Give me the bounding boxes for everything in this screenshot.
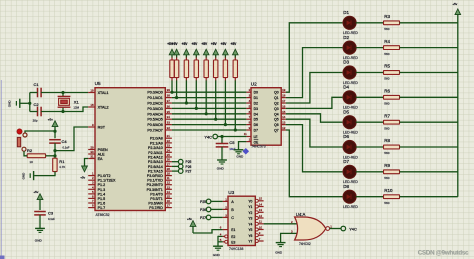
resistor R2	[27, 148, 55, 164]
wire C2 left arm	[30, 111, 38, 113]
svg-text:R4: R4	[384, 39, 390, 44]
svg-text:P1.3: P1.3	[98, 188, 106, 192]
svg-text:P3.5/T1: P3.5/T1	[150, 197, 163, 201]
svg-text:R6: R6	[384, 89, 390, 94]
svg-text:C2: C2	[34, 102, 40, 107]
ground (below R1)	[21, 171, 33, 180]
svg-text:39: 39	[167, 88, 171, 92]
wire D4 to R6	[356, 96, 384, 98]
svg-text:R8: R8	[384, 138, 390, 143]
svg-text:74HC02: 74HC02	[299, 242, 311, 246]
junction X1 top	[61, 91, 64, 94]
svg-text:R7: R7	[384, 113, 390, 118]
button (reset)	[17, 129, 27, 151]
wire R9 to +5v rail	[400, 171, 458, 173]
svg-text:31: 31	[90, 155, 94, 159]
svg-text:P25: P25	[186, 160, 192, 164]
svg-text:20p: 20p	[33, 118, 38, 122]
power +5v (U3 enable)	[187, 217, 196, 233]
svg-text:LED-RED: LED-RED	[343, 56, 358, 60]
svg-text:P0.2/AD2: P0.2/AD2	[147, 102, 162, 106]
wire C4 to R1	[54, 143, 56, 158]
svg-text:U5: U5	[95, 81, 101, 86]
svg-text:+5V: +5V	[221, 42, 228, 46]
power +5v rail	[452, 2, 460, 197]
svg-text:22: 22	[167, 139, 171, 143]
wire D3 to R5	[356, 72, 384, 74]
watermark	[418, 249, 470, 257]
wire D5 to R7	[356, 121, 384, 123]
svg-text:11: 11	[244, 132, 247, 136]
pull-up resistor 2 with +5V	[172, 42, 180, 99]
svg-text:560: 560	[384, 201, 389, 205]
svg-text:Y3: Y3	[248, 217, 252, 221]
junction button tap	[53, 130, 56, 133]
svg-text:Y0: Y0	[248, 199, 252, 203]
wire R4 to +5v rail	[400, 47, 458, 49]
svg-text:ALE: ALE	[98, 153, 106, 157]
svg-text:560: 560	[384, 27, 389, 31]
svg-text:12: 12	[282, 126, 286, 130]
svg-text:P1.4: P1.4	[98, 192, 106, 196]
wire R3 to +5v rail	[400, 22, 458, 24]
wire Q4 to LED D5	[286, 114, 343, 122]
node Y4C (U4 output)	[341, 226, 357, 231]
wire D1 to R3	[356, 22, 384, 24]
svg-text:36: 36	[167, 104, 171, 108]
svg-text:16: 16	[282, 104, 286, 108]
svg-text:D0: D0	[254, 91, 258, 95]
svg-text:560: 560	[384, 126, 389, 130]
svg-text:GND: GND	[275, 250, 283, 254]
svg-text:Y4C: Y4C	[204, 134, 212, 139]
node P27 (U3 side)	[200, 215, 211, 220]
svg-text:P0.5/AD5: P0.5/AD5	[147, 118, 162, 122]
wire Q3 to LED D4	[286, 97, 343, 108]
capacitor C2	[33, 102, 42, 122]
svg-text:10: 10	[167, 172, 171, 176]
wire C5 to ground	[221, 147, 223, 160]
wire Q2 to LED D3	[286, 73, 343, 104]
svg-text:GND: GND	[213, 253, 221, 257]
svg-text:R10: R10	[384, 188, 393, 193]
svg-text:GND: GND	[21, 172, 25, 180]
svg-text:11: 11	[259, 220, 262, 224]
svg-text:D7: D7	[343, 159, 349, 164]
svg-text:17: 17	[167, 204, 171, 208]
svg-text:Y7: Y7	[248, 240, 252, 244]
svg-text:Q5: Q5	[274, 118, 279, 122]
wire R5 to +5v rail	[400, 72, 458, 74]
svg-text:74HC138: 74HC138	[229, 247, 243, 251]
svg-text:+5V: +5V	[201, 42, 208, 46]
capacitor C5	[216, 140, 236, 151]
svg-text:560: 560	[384, 151, 389, 155]
svg-text:Q3: Q3	[274, 107, 279, 111]
wire C3 to ground	[39, 215, 41, 228]
svg-text:C4: C4	[62, 139, 68, 144]
wire node P26 (MCU side)	[172, 165, 179, 167]
svg-text:35: 35	[167, 110, 171, 114]
svg-text:P27: P27	[186, 170, 192, 174]
svg-text:11: 11	[167, 176, 170, 180]
svg-text:+5v: +5v	[187, 217, 192, 221]
NOR gate U4:A 74HC02	[291, 212, 332, 246]
svg-text:P2.6/A14: P2.6/A14	[148, 165, 163, 169]
svg-text:D6: D6	[343, 134, 349, 139]
resistor R7	[384, 113, 400, 130]
wire node P26 to U3	[211, 208, 223, 210]
junction X1 bottom	[61, 110, 64, 113]
svg-text:P2.3/A11: P2.3/A11	[148, 151, 163, 155]
svg-text:GND: GND	[236, 155, 244, 159]
svg-text:19: 19	[282, 88, 286, 92]
wire button to +5v	[25, 131, 55, 133]
svg-text:18: 18	[90, 103, 94, 107]
svg-text:R2: R2	[27, 148, 33, 153]
wire P0.2 bus	[172, 102, 247, 104]
svg-text:Q1: Q1	[274, 96, 279, 100]
svg-text:P25: P25	[200, 200, 206, 204]
svg-text:LED-RED: LED-RED	[343, 180, 358, 184]
svg-text:OE: OE	[254, 140, 259, 144]
marker (no-model diamond)	[243, 148, 250, 155]
svg-text:R9: R9	[384, 163, 390, 168]
svg-text:14: 14	[167, 190, 171, 194]
resistor R9	[384, 163, 400, 180]
ground (below OE)	[234, 150, 244, 159]
svg-text:AT89C52: AT89C52	[96, 213, 110, 217]
wire node P25 to U3	[211, 200, 223, 202]
svg-text:XTAL2: XTAL2	[98, 106, 109, 110]
pull-up resistor 5 with +5V	[201, 42, 209, 115]
svg-text:Y4C: Y4C	[349, 226, 357, 231]
svg-text:LE: LE	[254, 135, 258, 139]
wire Y4C to LE	[218, 136, 247, 138]
junction RST net	[53, 149, 56, 152]
svg-text:Y5: Y5	[248, 228, 252, 232]
wire D8 to R10	[356, 196, 384, 198]
svg-text:27: 27	[167, 162, 171, 166]
wire Q7 to LED D8	[286, 130, 343, 197]
latch U2 74HC573	[244, 81, 286, 148]
svg-text:LED-RED: LED-RED	[343, 131, 358, 135]
svg-text:Q6: Q6	[274, 123, 279, 127]
svg-text:C3: C3	[48, 210, 54, 215]
wire node P27 to U3	[211, 216, 223, 218]
wire node P25 (MCU side)	[172, 161, 179, 163]
microcontroller U5 AT89C52	[88, 81, 172, 217]
LED D3 LED-RED	[342, 60, 358, 85]
ground (below C3)	[35, 228, 45, 242]
wire U4 output	[330, 228, 341, 230]
wire OE to ground	[239, 142, 247, 150]
wire Q1 to LED D2	[286, 48, 343, 98]
resistor R1	[53, 158, 66, 171]
svg-text:Y6: Y6	[248, 234, 252, 238]
wire P0.7 bus	[172, 129, 247, 131]
svg-text:LED-RED: LED-RED	[343, 205, 358, 209]
power +5v (reset)	[48, 117, 58, 138]
svg-text:D6: D6	[254, 123, 258, 127]
wire button to R2	[24, 151, 27, 156]
svg-text:Q4: Q4	[274, 112, 279, 116]
node P26 (MCU side)	[178, 164, 191, 169]
svg-text:P2.2/A10: P2.2/A10	[148, 146, 163, 150]
svg-text:Q2: Q2	[274, 102, 279, 106]
pull-up resistor 8 with +5V	[231, 42, 239, 131]
svg-text:P3.7/RD: P3.7/RD	[149, 206, 163, 210]
svg-text:P1.7: P1.7	[98, 206, 106, 210]
wire Q5 to LED D6	[286, 119, 343, 147]
svg-text:+5v: +5v	[452, 2, 457, 6]
svg-text:X1: X1	[74, 99, 80, 104]
svg-text:CSDN @9whutdsc: CSDN @9whutdsc	[418, 249, 469, 256]
svg-text:Y2: Y2	[248, 211, 252, 215]
ground (left of C1/C2)	[8, 99, 20, 108]
svg-text:18: 18	[282, 94, 286, 98]
wire D6 to R8	[356, 146, 384, 148]
svg-text:EA: EA	[98, 157, 103, 161]
svg-text:23: 23	[167, 144, 171, 148]
svg-text:P27: P27	[200, 216, 206, 220]
wire R6 to +5v rail	[400, 96, 458, 98]
svg-text:Q0: Q0	[274, 91, 279, 95]
svg-text:D2: D2	[254, 102, 258, 106]
svg-text:LED-RED: LED-RED	[343, 106, 358, 110]
svg-text:24: 24	[167, 148, 171, 152]
svg-text:+5v: +5v	[48, 117, 53, 121]
wire P0.0 bus	[172, 91, 247, 93]
svg-text:D1: D1	[343, 10, 349, 15]
svg-text:D4: D4	[254, 112, 258, 116]
junction cap-gnd	[28, 102, 31, 105]
wire U4 input2 to ground	[281, 233, 299, 242]
svg-text:D8: D8	[343, 184, 349, 189]
wire Q6 to LED D7	[286, 125, 343, 172]
wire ground tap	[20, 102, 29, 104]
wire P0.4 bus	[172, 113, 247, 115]
svg-text:+5V: +5V	[211, 42, 218, 46]
svg-text:17: 17	[282, 99, 286, 103]
svg-text:Y4: Y4	[248, 222, 252, 226]
svg-text:P2.1/A9: P2.1/A9	[150, 141, 163, 145]
svg-text:R1: R1	[59, 159, 65, 164]
svg-text:14: 14	[282, 115, 286, 119]
capacitor C1	[34, 82, 42, 97]
wire P0.5 bus	[172, 118, 247, 120]
svg-text:10: 10	[259, 225, 263, 229]
capacitor C4	[49, 139, 70, 149]
svg-text:P3.0/RXD: P3.0/RXD	[147, 174, 163, 178]
svg-text:30: 30	[90, 150, 94, 154]
sheet border (left)	[0, 80, 2, 259]
svg-text:C1: C1	[34, 82, 40, 87]
LED D5 LED-RED	[342, 109, 358, 134]
wire P0.3 bus	[172, 107, 247, 109]
svg-text:D5: D5	[343, 109, 349, 114]
svg-text:P2.5/A13: P2.5/A13	[148, 160, 163, 164]
node P25 (U3 side)	[200, 199, 211, 204]
svg-text:15: 15	[259, 197, 263, 201]
ground (U4 input)	[275, 243, 285, 255]
node P26 (U3 side)	[200, 207, 211, 212]
svg-text:12M: 12M	[73, 106, 79, 110]
wire R8 to +5v rail	[400, 146, 458, 148]
svg-text:E1: E1	[231, 228, 235, 232]
wire E2/E3 to ground	[218, 236, 223, 246]
svg-text:D2: D2	[343, 35, 349, 40]
svg-text:D3: D3	[254, 107, 258, 111]
svg-text:P0.6/AD6: P0.6/AD6	[147, 123, 162, 127]
LED D7 LED-RED	[342, 159, 358, 184]
pull-up resistor 3 with +5V	[182, 42, 190, 104]
svg-text:13: 13	[282, 121, 286, 125]
svg-text:16: 16	[167, 199, 171, 203]
svg-text:P0.7/AD7: P0.7/AD7	[147, 129, 162, 133]
svg-text:E3: E3	[231, 240, 235, 244]
ground (U3 enables)	[213, 246, 223, 257]
LED D8 LED-RED	[342, 184, 358, 209]
svg-text:P3.6/WR: P3.6/WR	[148, 202, 163, 206]
svg-text:P26: P26	[186, 165, 192, 169]
svg-text:RST: RST	[98, 126, 106, 130]
wire R1 to ground	[34, 172, 55, 176]
svg-text:P1.1/T2EX: P1.1/T2EX	[98, 179, 116, 183]
svg-text:Y1: Y1	[248, 205, 252, 209]
svg-text:14: 14	[259, 202, 263, 206]
svg-text:25: 25	[167, 153, 171, 157]
wire D7 to R9	[356, 171, 384, 173]
svg-text:D3: D3	[343, 60, 349, 65]
svg-text:P1.2: P1.2	[98, 183, 106, 187]
svg-text:LED-RED: LED-RED	[343, 155, 358, 159]
svg-text:R3: R3	[384, 14, 390, 19]
svg-text:D1: D1	[254, 96, 258, 100]
svg-text:P2.4/A12: P2.4/A12	[148, 156, 163, 160]
svg-text:P2.7/A15: P2.7/A15	[148, 170, 163, 174]
svg-text:P2.0/A8: P2.0/A8	[150, 137, 163, 141]
svg-text:Q7: Q7	[274, 129, 279, 133]
wire EA to arrow	[85, 159, 89, 167]
svg-text:P3.1/TXD: P3.1/TXD	[147, 179, 163, 183]
svg-text:+5v: +5v	[33, 190, 38, 194]
wire P0.6 bus	[172, 124, 247, 126]
LED D4 LED-RED	[342, 85, 358, 110]
wire cap left vertical	[29, 93, 31, 112]
resistor R4	[384, 39, 400, 56]
wire R7 to +5v rail	[400, 121, 458, 123]
svg-text:U4:A: U4:A	[296, 212, 306, 217]
svg-text:12: 12	[167, 181, 171, 185]
resistor R10	[384, 188, 400, 205]
svg-text:29: 29	[90, 146, 94, 150]
svg-text:GND: GND	[217, 167, 225, 171]
svg-text:P0.1/AD1: P0.1/AD1	[147, 96, 162, 100]
svg-text:37: 37	[167, 99, 171, 103]
svg-text:4.7K: 4.7K	[59, 165, 65, 169]
svg-text:+5V: +5V	[231, 42, 238, 46]
svg-text:D4: D4	[343, 85, 349, 90]
wire C5 top	[221, 137, 223, 144]
pull-up resistor 4 with +5V	[192, 42, 200, 110]
LED D2 LED-RED	[342, 35, 358, 60]
svg-text:74HC573: 74HC573	[251, 145, 265, 149]
resistor R3	[384, 14, 400, 31]
svg-text:XTAL1: XTAL1	[98, 91, 109, 95]
svg-text:+5V: +5V	[172, 42, 179, 46]
svg-text:33: 33	[167, 121, 171, 125]
svg-text:15: 15	[282, 110, 286, 114]
svg-text:C5: C5	[229, 140, 235, 145]
svg-text:GND: GND	[8, 100, 12, 108]
svg-text:C: C	[231, 216, 234, 220]
resistor R8	[384, 138, 400, 155]
svg-text:R5: R5	[384, 64, 390, 69]
svg-text:P3.4/T0: P3.4/T0	[150, 192, 163, 196]
node P27 (MCU side)	[178, 169, 191, 174]
svg-text:P0.0/AD0: P0.0/AD0	[147, 91, 162, 95]
svg-text:U2: U2	[251, 81, 257, 86]
svg-text:U3: U3	[228, 190, 234, 195]
svg-text:28: 28	[167, 167, 171, 171]
svg-text:P0.4/AD4: P0.4/AD4	[147, 112, 162, 116]
svg-text:38: 38	[167, 94, 171, 98]
svg-text:+5V: +5V	[182, 42, 189, 46]
svg-text:12: 12	[259, 214, 263, 218]
pull-up resistor 1 with +5V	[167, 42, 175, 94]
svg-text:13: 13	[259, 208, 263, 212]
wire Y4 to U4 input	[264, 223, 299, 225]
node P25 (MCU side)	[178, 159, 191, 164]
svg-text:560: 560	[384, 77, 389, 81]
svg-text:P1.6: P1.6	[98, 202, 106, 206]
power arrow (EA)	[80, 166, 87, 180]
wire node P27 (MCU side)	[172, 170, 179, 172]
wire Q0 to LED D1	[286, 23, 343, 92]
junction C5 tap	[220, 135, 223, 138]
pull-up resistor 7 with +5V	[221, 42, 229, 126]
svg-text:560: 560	[384, 52, 389, 56]
wire R10 to +5v rail	[400, 196, 458, 198]
svg-text:P1.5: P1.5	[98, 197, 106, 201]
svg-text:21: 21	[167, 134, 171, 138]
svg-text:PSEN: PSEN	[98, 148, 108, 152]
svg-text:P26: P26	[200, 208, 206, 212]
LED D6 LED-RED	[342, 134, 358, 159]
capacitor C3	[34, 210, 55, 220]
svg-text:LED-RED: LED-RED	[343, 31, 358, 35]
svg-text:LED-RED: LED-RED	[343, 81, 358, 85]
svg-text:P3.2/INT0: P3.2/INT0	[147, 183, 163, 187]
svg-text:19: 19	[90, 89, 94, 93]
crystal X1	[58, 93, 80, 112]
ground (below C5)	[217, 160, 227, 171]
svg-text:15: 15	[167, 194, 171, 198]
svg-text:34: 34	[167, 115, 171, 119]
svg-text:P0.3/AD3: P0.3/AD3	[147, 107, 162, 111]
svg-text:+5V: +5V	[192, 42, 199, 46]
resistor R5	[384, 64, 400, 81]
svg-text:10: 10	[30, 160, 34, 164]
wire P0.1 bus	[172, 97, 247, 99]
junction R2 net	[53, 154, 56, 157]
svg-text:GND: GND	[35, 239, 43, 243]
svg-text:560: 560	[384, 176, 389, 180]
wire XTAL1 net	[41, 92, 88, 94]
svg-text:E2: E2	[231, 235, 235, 239]
decoder U3 74HC138	[220, 190, 264, 251]
